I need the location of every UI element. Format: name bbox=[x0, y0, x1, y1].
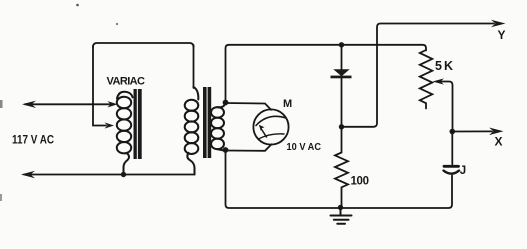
wire: secondary top riser and top bus to 5K bbox=[226, 45, 427, 103]
junction: diode cathode / Y tap / R1 top bbox=[339, 124, 344, 129]
wire: 5K wiper arm to X node bbox=[433, 78, 453, 131]
scan specks bbox=[0, 4, 118, 201]
VARIAC core bars bbox=[134, 89, 142, 159]
transformer T1 core bars bbox=[203, 87, 211, 158]
diode D1 (rectifier, anode up / cathode bar below) bbox=[331, 45, 352, 127]
wire: secondary bottom bus to capacitor bbox=[226, 150, 453, 208]
transformer T1 primary winding bbox=[185, 87, 199, 175]
junction: diode anode to top bus bbox=[339, 42, 344, 47]
svg-text:10 V AC: 10 V AC bbox=[287, 141, 322, 153]
ground symbol bbox=[331, 208, 352, 224]
wire: meter top lead bbox=[226, 103, 272, 110]
wire: tap feed drop with arrow to VARIAC bbox=[93, 46, 114, 129]
capacitor C1 (curved plate) bbox=[444, 132, 460, 174]
autotransformer VARIAC winding bbox=[117, 92, 133, 175]
svg-text:Y: Y bbox=[498, 28, 506, 42]
svg-text:X: X bbox=[495, 135, 503, 149]
resistor R1 100 ohms bbox=[335, 127, 348, 208]
junction: VARIAC winding bottom to neutral bbox=[121, 172, 126, 177]
svg-text:100: 100 bbox=[351, 176, 370, 188]
svg-text:M: M bbox=[283, 98, 292, 110]
wire: Y output branch bbox=[342, 20, 506, 127]
junction: R1 bottom / ground node bbox=[338, 205, 343, 210]
svg-text:117 V AC: 117 V AC bbox=[12, 135, 54, 147]
junction: secondary top node bbox=[223, 100, 229, 106]
wire: X output bbox=[452, 128, 503, 136]
wire: VARIAC box top (tap feed to transformer primary) bbox=[93, 43, 194, 47]
wire: 117 V AC neutral lead (bottom) bbox=[21, 171, 195, 178]
potentiometer R2 5K bbox=[420, 50, 433, 109]
svg-text:J: J bbox=[460, 165, 466, 177]
wire: 117 V AC hot lead (top) with arrow to VARIAC tap bbox=[22, 101, 118, 108]
svg-text:VARIAC: VARIAC bbox=[107, 76, 146, 88]
junction: secondary bottom node bbox=[223, 147, 229, 153]
transformer T1 secondary winding bbox=[211, 103, 226, 151]
junction: X output node bbox=[450, 129, 456, 135]
meter M (10 V AC voltmeter) bbox=[253, 109, 288, 144]
svg-text:5K: 5K bbox=[435, 59, 453, 73]
wire: primary top drop from VARIAC box bbox=[193, 45, 195, 88]
wire: meter bottom lead bbox=[226, 144, 272, 151]
